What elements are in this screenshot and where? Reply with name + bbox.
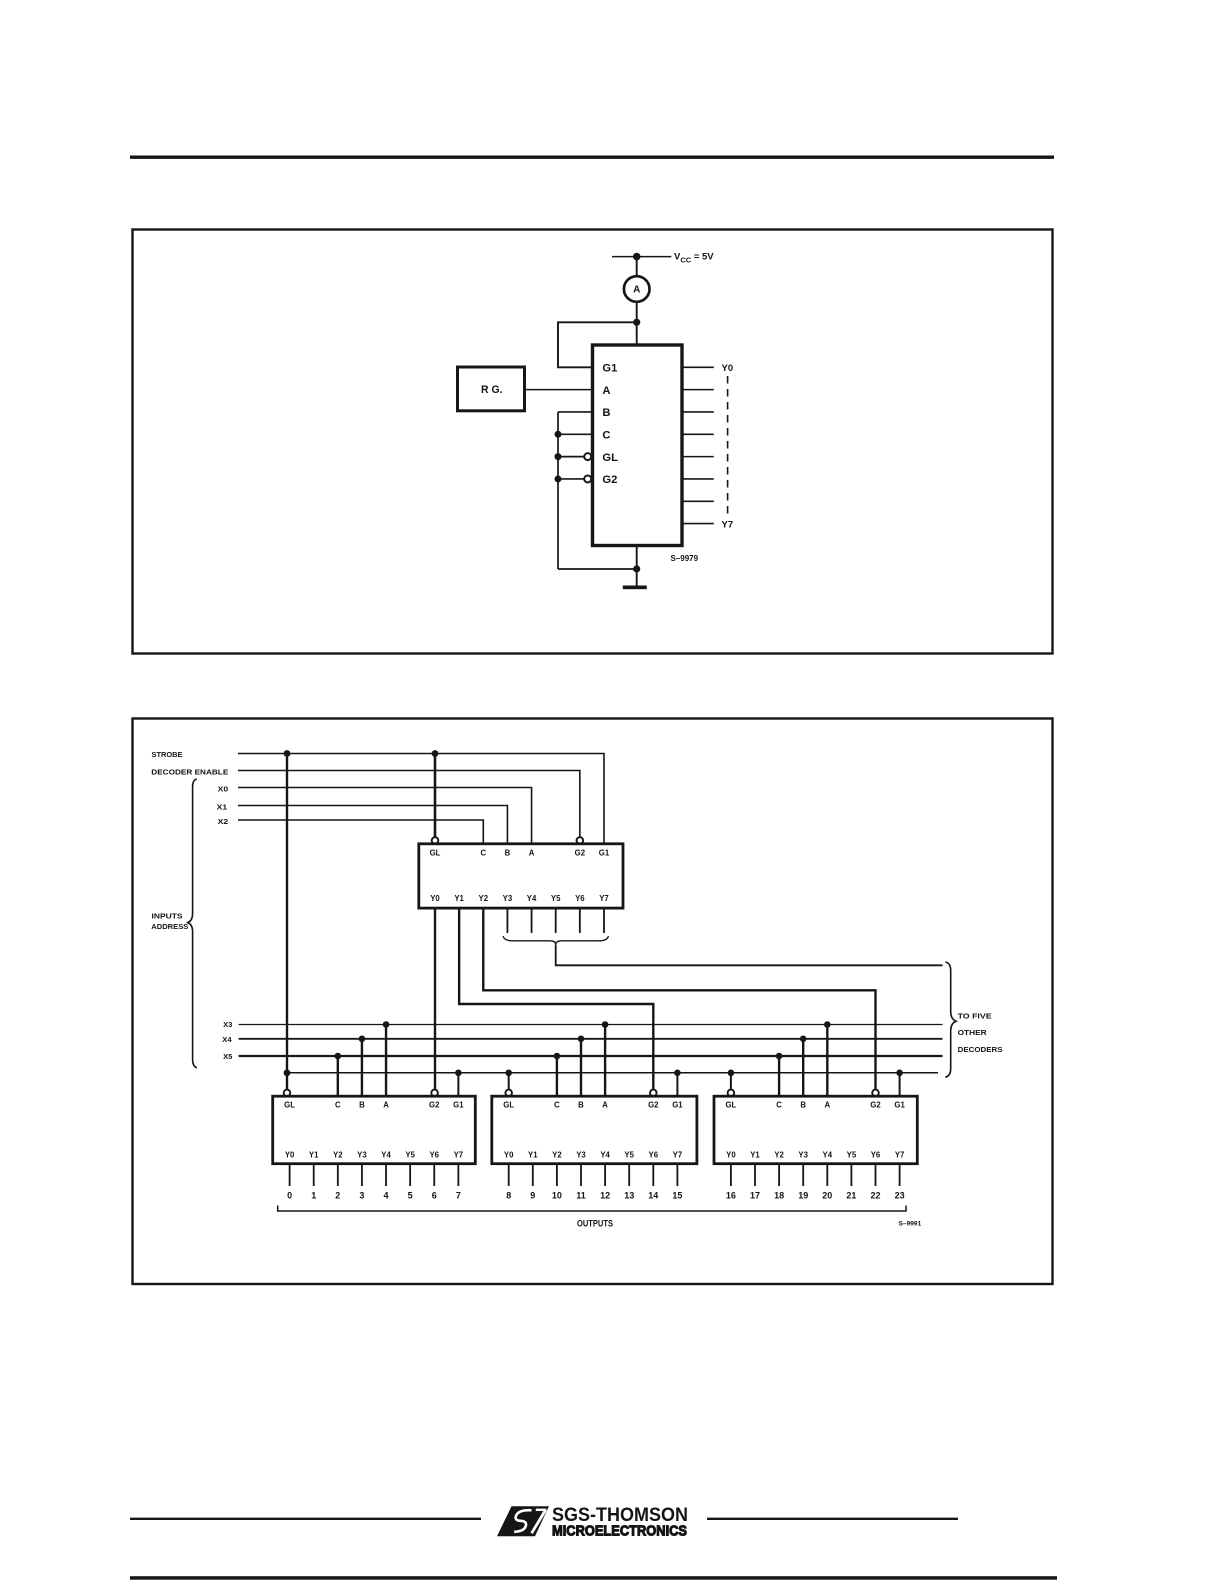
svg-text:Y7: Y7 [454, 1151, 464, 1160]
svg-text:A: A [602, 385, 610, 397]
svg-text:Y1: Y1 [528, 1151, 538, 1160]
svg-text:Y1: Y1 [750, 1151, 760, 1160]
svg-text:MICROELECTRONICS: MICROELECTRONICS [552, 1523, 687, 1539]
svg-text:TO FIVE: TO FIVE [958, 1012, 992, 1021]
svg-text:Y2: Y2 [479, 894, 489, 903]
svg-text:Y7: Y7 [722, 519, 734, 530]
svg-text:Y0: Y0 [722, 363, 734, 374]
svg-text:Y3: Y3 [798, 1151, 808, 1160]
svg-text:Y0: Y0 [430, 894, 440, 903]
svg-text:A: A [529, 848, 535, 857]
svg-text:R G.: R G. [481, 384, 503, 396]
svg-text:Y5: Y5 [405, 1151, 415, 1160]
svg-text:G2: G2 [870, 1100, 881, 1109]
svg-text:20: 20 [822, 1191, 832, 1201]
svg-text:G1: G1 [602, 363, 617, 375]
svg-text:GL: GL [503, 1100, 514, 1109]
svg-text:Y3: Y3 [503, 894, 513, 903]
svg-text:8: 8 [506, 1191, 511, 1201]
svg-text:A: A [602, 1100, 608, 1109]
svg-text:Y7: Y7 [895, 1151, 905, 1160]
svg-text:DECODER ENABLE: DECODER ENABLE [151, 768, 228, 777]
svg-text:15: 15 [672, 1191, 682, 1201]
svg-text:X0: X0 [218, 784, 229, 793]
svg-text:S–9979: S–9979 [671, 554, 699, 563]
svg-text:B: B [505, 848, 511, 857]
svg-text:C: C [776, 1100, 782, 1109]
svg-text:OTHER: OTHER [958, 1028, 988, 1037]
svg-text:B: B [359, 1100, 365, 1109]
svg-text:GL: GL [430, 848, 441, 857]
svg-text:C: C [602, 429, 610, 441]
svg-text:14: 14 [648, 1191, 658, 1201]
svg-text:G1: G1 [894, 1100, 905, 1109]
svg-text:Y3: Y3 [576, 1151, 586, 1160]
svg-text:G1: G1 [672, 1100, 683, 1109]
svg-text:Y5: Y5 [847, 1151, 857, 1160]
svg-text:7: 7 [456, 1191, 461, 1201]
svg-text:Y7: Y7 [673, 1151, 683, 1160]
svg-text:Y1: Y1 [309, 1151, 319, 1160]
svg-text:Y2: Y2 [333, 1151, 343, 1160]
svg-text:Y3: Y3 [357, 1151, 367, 1160]
svg-text:S–9991: S–9991 [899, 1221, 922, 1228]
svg-text:Y5: Y5 [624, 1151, 634, 1160]
svg-text:11: 11 [576, 1191, 586, 1201]
svg-text:Y2: Y2 [552, 1151, 562, 1160]
svg-text:STROBE: STROBE [152, 750, 183, 759]
svg-text:X5: X5 [223, 1052, 232, 1061]
svg-text:19: 19 [798, 1191, 808, 1201]
svg-text:GL: GL [284, 1100, 295, 1109]
svg-text:0: 0 [287, 1191, 292, 1201]
svg-text:22: 22 [870, 1191, 880, 1201]
svg-text:23: 23 [895, 1191, 905, 1201]
svg-text:9: 9 [530, 1191, 535, 1201]
svg-text:X4: X4 [222, 1035, 231, 1044]
svg-text:A: A [633, 285, 640, 296]
svg-text:Y6: Y6 [871, 1151, 881, 1160]
svg-text:Y5: Y5 [551, 894, 561, 903]
svg-text:G1: G1 [599, 848, 610, 857]
svg-text:Y0: Y0 [726, 1151, 736, 1160]
svg-text:12: 12 [600, 1191, 610, 1201]
svg-text:6: 6 [432, 1191, 437, 1201]
svg-text:G2: G2 [648, 1100, 659, 1109]
svg-text:B: B [578, 1100, 584, 1109]
svg-text:X1: X1 [217, 802, 228, 811]
svg-text:Y4: Y4 [527, 894, 537, 903]
svg-text:Y4: Y4 [823, 1151, 833, 1160]
svg-text:A: A [824, 1100, 830, 1109]
svg-text:10: 10 [552, 1191, 562, 1201]
svg-text:Y7: Y7 [599, 894, 609, 903]
svg-text:B: B [800, 1100, 806, 1109]
svg-text:17: 17 [750, 1191, 760, 1201]
svg-text:Y6: Y6 [575, 894, 585, 903]
svg-text:C: C [480, 848, 486, 857]
svg-text:Y1: Y1 [454, 894, 464, 903]
svg-text:G2: G2 [429, 1100, 440, 1109]
svg-text:GL: GL [725, 1100, 736, 1109]
svg-text:Y2: Y2 [774, 1151, 784, 1160]
svg-text:Y6: Y6 [649, 1151, 659, 1160]
svg-text:GL: GL [602, 452, 618, 464]
svg-text:C: C [335, 1100, 341, 1109]
svg-text:X3: X3 [223, 1020, 232, 1029]
svg-text:16: 16 [726, 1191, 736, 1201]
svg-text:1: 1 [311, 1191, 316, 1201]
svg-text:18: 18 [774, 1191, 784, 1201]
svg-text:OUTPUTS: OUTPUTS [577, 1219, 613, 1229]
svg-text:G2: G2 [575, 848, 586, 857]
svg-text:4: 4 [384, 1191, 389, 1201]
svg-text:G1: G1 [453, 1100, 464, 1109]
svg-text:B: B [602, 407, 610, 419]
svg-text:ADDRESS: ADDRESS [151, 922, 188, 931]
svg-text:Y4: Y4 [600, 1151, 610, 1160]
svg-text:A: A [383, 1100, 389, 1109]
svg-text:Y6: Y6 [429, 1151, 439, 1160]
svg-text:Y4: Y4 [381, 1151, 391, 1160]
svg-text:3: 3 [359, 1191, 364, 1201]
svg-text:13: 13 [624, 1191, 634, 1201]
svg-text:G2: G2 [602, 474, 617, 486]
svg-text:C: C [554, 1100, 560, 1109]
svg-text:2: 2 [335, 1191, 340, 1201]
svg-text:Y0: Y0 [285, 1151, 295, 1160]
svg-text:X2: X2 [218, 817, 229, 826]
svg-text:Y0: Y0 [504, 1151, 514, 1160]
svg-text:5: 5 [408, 1191, 413, 1201]
svg-text:DECODERS: DECODERS [958, 1045, 1003, 1054]
svg-text:INPUTS: INPUTS [152, 912, 183, 921]
svg-text:21: 21 [846, 1191, 856, 1201]
